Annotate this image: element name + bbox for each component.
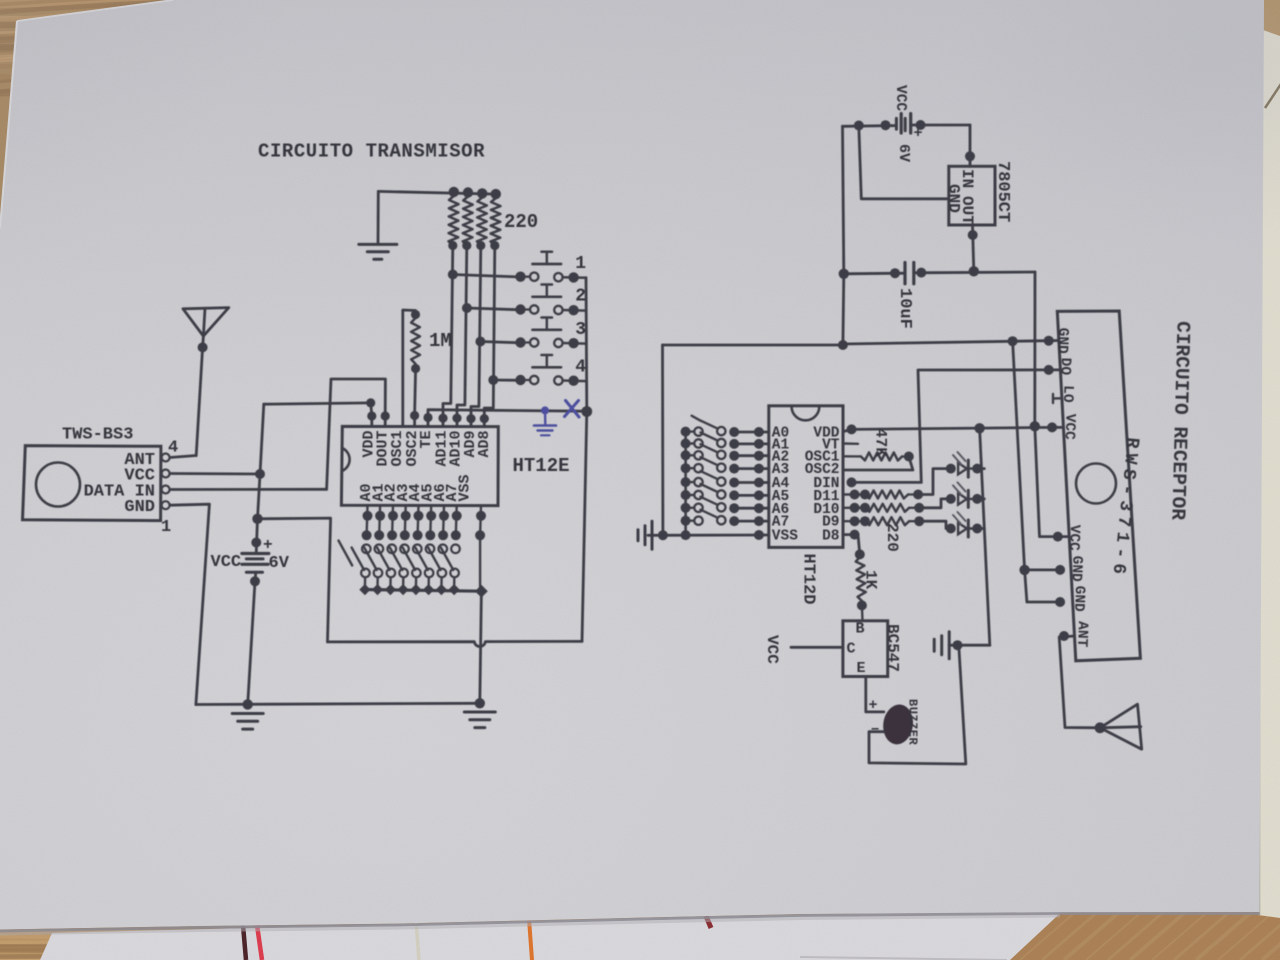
svg-text:1K: 1K xyxy=(862,570,880,590)
svg-text:47K: 47K xyxy=(872,428,890,457)
svg-text:VCC: VCC xyxy=(892,85,908,111)
svg-text:10uF: 10uF xyxy=(895,288,914,329)
svg-text:6V: 6V xyxy=(269,554,290,573)
svg-text:VCC: VCC xyxy=(1061,413,1078,440)
svg-text:220: 220 xyxy=(504,211,538,233)
svg-text:1: 1 xyxy=(161,518,171,537)
svg-text:C: C xyxy=(847,641,856,658)
svg-text:VSS: VSS xyxy=(772,529,798,545)
svg-text:2: 2 xyxy=(575,287,586,307)
svg-text:4: 4 xyxy=(575,358,586,378)
svg-text:CIRCUITO TRANSMISOR: CIRCUITO TRANSMISOR xyxy=(258,141,485,163)
svg-text:7805CT: 7805CT xyxy=(993,161,1012,222)
svg-text:6V: 6V xyxy=(895,144,912,162)
svg-text:4: 4 xyxy=(168,439,178,458)
svg-text:E: E xyxy=(857,660,866,677)
svg-text:GND: GND xyxy=(1068,555,1085,582)
svg-text:HT12D: HT12D xyxy=(799,554,818,605)
svg-text:+: + xyxy=(263,536,273,554)
svg-text:VCC: VCC xyxy=(211,553,242,572)
svg-text:BC547: BC547 xyxy=(884,624,902,672)
svg-text:VCC: VCC xyxy=(1065,524,1082,551)
svg-text:ANT: ANT xyxy=(1073,621,1090,648)
svg-text:D8: D8 xyxy=(822,529,839,545)
svg-text:AD8: AD8 xyxy=(476,431,493,458)
svg-text:GND: GND xyxy=(1070,585,1087,612)
svg-text:TWS-BS3: TWS-BS3 xyxy=(62,426,133,445)
svg-text:LO: LO xyxy=(1059,385,1076,403)
svg-text:VCC: VCC xyxy=(763,635,781,664)
svg-text:1: 1 xyxy=(575,254,586,274)
svg-text:3: 3 xyxy=(575,320,586,340)
svg-text:HT12E: HT12E xyxy=(513,455,570,477)
svg-text:GND: GND xyxy=(1054,327,1071,354)
svg-text:TE: TE xyxy=(418,431,435,449)
svg-text:220: 220 xyxy=(883,523,901,552)
svg-text:+: + xyxy=(869,697,878,714)
svg-text:BUZZER: BUZZER xyxy=(906,699,920,746)
svg-text:DO: DO xyxy=(1056,357,1073,375)
svg-text:1M: 1M xyxy=(429,330,452,352)
svg-text:GND: GND xyxy=(124,498,155,517)
svg-text:B: B xyxy=(856,621,865,638)
svg-text:VSS: VSS xyxy=(457,474,474,501)
